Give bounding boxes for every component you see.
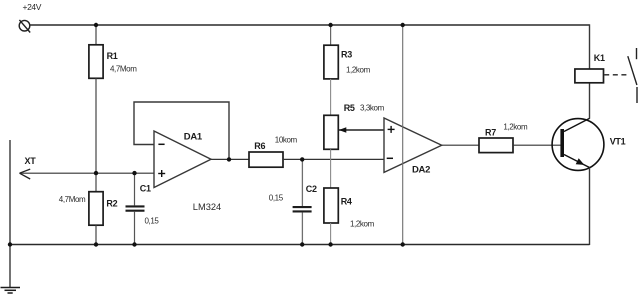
svg-text:R3: R3 bbox=[341, 50, 352, 60]
op-amp DA2 bbox=[384, 118, 442, 172]
potentiometer R5 bbox=[324, 115, 338, 149]
wire R4 bottom stub bbox=[330, 223, 332, 245]
resistor R4 bbox=[324, 188, 338, 223]
node R6 / C2 bbox=[300, 157, 304, 161]
resistor R3 bbox=[324, 45, 338, 79]
svg-text:K1: K1 bbox=[594, 53, 605, 63]
svg-text:R1: R1 bbox=[107, 51, 118, 61]
ground bbox=[1, 288, 21, 294]
svg-text:C1: C1 bbox=[140, 183, 151, 193]
wire C2 bottom stub bbox=[301, 212, 303, 244]
wire R3 top stub bbox=[330, 25, 332, 45]
wire R5 to R4 bbox=[330, 149, 332, 188]
XT arrowhead bbox=[20, 169, 31, 179]
wire relay feed (top-right corner down to coil) bbox=[589, 24, 591, 69]
wire DA1 output bbox=[211, 158, 249, 160]
svg-text:0,15: 0,15 bbox=[145, 216, 160, 225]
node DA1 output bbox=[227, 157, 231, 161]
resistor R2 bbox=[89, 192, 103, 226]
node top rail / R3 bbox=[328, 23, 332, 27]
node top rail / R1 bbox=[94, 23, 98, 27]
svg-text:4,7Mom: 4,7Mom bbox=[110, 65, 137, 74]
K1 contact blade bbox=[628, 56, 637, 85]
wire R3 to R5 bbox=[330, 79, 332, 115]
svg-text:1,2kom: 1,2kom bbox=[346, 66, 371, 75]
R5 wiper arrow to DA2 plus input bbox=[339, 129, 384, 131]
svg-text:3,3kom: 3,3kom bbox=[360, 104, 385, 113]
wire XT line bbox=[20, 172, 155, 174]
svg-text:R2: R2 bbox=[106, 199, 117, 209]
wire R6 to DA2 inverting input bbox=[283, 158, 384, 160]
node bottom rail / C1 bbox=[132, 242, 136, 246]
K1 contact lower terminal bbox=[636, 87, 638, 103]
DA1 plus input sign bbox=[158, 170, 165, 177]
svg-text:0,15: 0,15 bbox=[269, 194, 284, 203]
resistor R6 bbox=[249, 152, 283, 167]
svg-text:10kom: 10kom bbox=[275, 135, 298, 144]
svg-text:+24V: +24V bbox=[23, 2, 42, 12]
svg-text:R7: R7 bbox=[485, 127, 496, 137]
node XT / R1 R2 bbox=[94, 171, 98, 175]
node bottom rail / R4 bbox=[328, 242, 332, 246]
wire R1 top stub bbox=[95, 25, 97, 45]
K1 contact upper terminal bbox=[636, 48, 638, 59]
wire R7 to VT1 base bbox=[513, 144, 561, 146]
wire left ground riser bbox=[9, 140, 11, 288]
DA2 minus input sign bbox=[387, 157, 393, 159]
wire DA2 output bbox=[442, 144, 479, 146]
node bottom rail / ground bbox=[8, 242, 12, 246]
svg-text:VT1: VT1 bbox=[610, 136, 626, 146]
K1 mechanical link (dashed) bbox=[604, 74, 630, 76]
wire top rail bbox=[30, 24, 590, 26]
node top rail / DA2 power bbox=[401, 23, 405, 27]
svg-text:1,2kom: 1,2kom bbox=[503, 123, 528, 132]
svg-text:R5: R5 bbox=[344, 103, 355, 113]
op-amp DA1 bbox=[154, 131, 211, 188]
resistor R1 bbox=[89, 45, 103, 79]
svg-text:1,2kom: 1,2kom bbox=[350, 219, 375, 228]
node bottom rail / C2 bbox=[300, 242, 304, 246]
svg-text:XT: XT bbox=[25, 156, 37, 166]
wire R1 bottom to XT node bbox=[95, 78, 97, 173]
resistor R7 bbox=[479, 138, 513, 153]
wire C1 bottom stub bbox=[134, 212, 136, 245]
DA2 power rail line bbox=[402, 25, 404, 245]
svg-text:R6: R6 bbox=[254, 141, 265, 151]
DA2 plus input sign bbox=[388, 126, 395, 133]
node XT / C1 bbox=[132, 171, 136, 175]
wire VT1 emitter down bbox=[589, 168, 591, 245]
svg-text:C2: C2 bbox=[306, 184, 317, 194]
transistor VT1 bbox=[552, 118, 604, 170]
node bottom rail / R2 bbox=[94, 242, 98, 246]
terminal XT1 (+24V input clamp) bbox=[19, 20, 30, 33]
svg-text:4,7Mom: 4,7Mom bbox=[59, 195, 86, 204]
wire bottom rail bbox=[8, 244, 590, 246]
DA1 minus input sign bbox=[158, 143, 164, 145]
relay coil K1 bbox=[575, 69, 604, 83]
svg-text:R4: R4 bbox=[341, 197, 352, 207]
wire VT1 collector to relay coil bbox=[589, 83, 591, 119]
capacitor C1 bbox=[126, 206, 145, 210]
svg-text:DA2: DA2 bbox=[412, 164, 430, 175]
svg-text:DA1: DA1 bbox=[184, 132, 203, 143]
wire R2 bottom stub bbox=[95, 225, 97, 244]
svg-text:LM324: LM324 bbox=[193, 202, 221, 212]
wire DA1 feedback loop bbox=[134, 102, 229, 159]
node bottom rail / DA2 power bbox=[401, 242, 405, 246]
wire C1 top stub bbox=[134, 173, 136, 205]
wire R2 top stub bbox=[95, 173, 97, 192]
wire C2 top stub bbox=[301, 159, 303, 206]
capacitor C2 bbox=[293, 207, 312, 211]
